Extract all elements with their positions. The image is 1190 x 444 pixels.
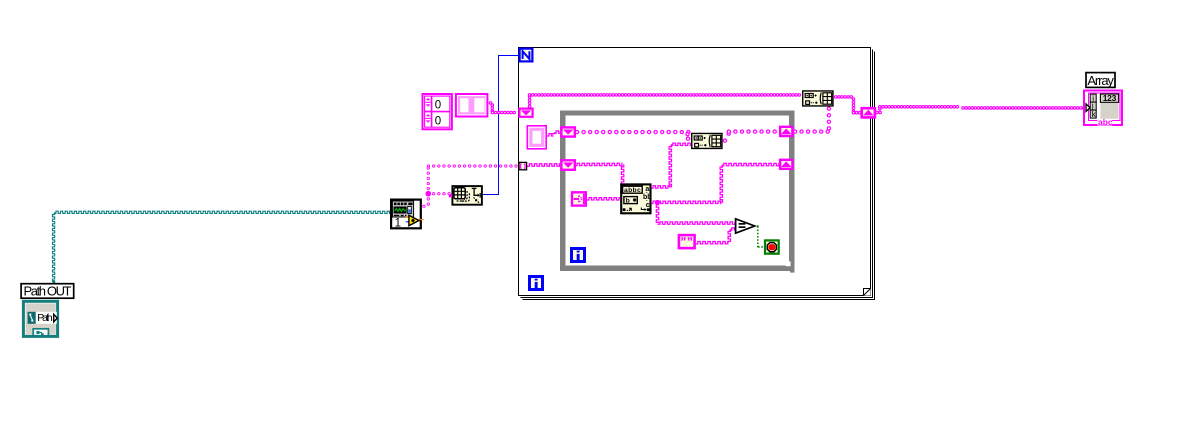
- for loop right shift register: [862, 108, 875, 117]
- while loop left shift register 1: [561, 127, 574, 136]
- svg-text:a: a: [645, 186, 649, 193]
- Array indicator label: [1086, 73, 1115, 88]
- svg-text:1: 1: [395, 218, 401, 230]
- wire: quotes constant to Equal? lower input: [695, 228, 736, 244]
- wire: empty array constant to while SR1: [547, 131, 562, 136]
- wire: while SR2 out down into Match Pattern: [575, 163, 624, 184]
- while loop right shift register 1: [780, 127, 792, 136]
- svg-text:c: c: [646, 202, 650, 209]
- svg-text:0: 0: [435, 115, 441, 127]
- quotes constant: [679, 235, 695, 248]
- wire: blue N count wire: [483, 56, 519, 195]
- Build Array node (inner): [692, 133, 722, 148]
- wire: inner Build Array output to while right SR1: [725, 132, 779, 141]
- wire: junction down to Equal? input: [656, 202, 736, 224]
- wire: boolean from Equal? to stop terminal: [755, 226, 766, 247]
- svg-text:abbc: abbc: [624, 187, 641, 194]
- while loop left shift register 2: [561, 160, 574, 170]
- 2D string array constant: index frame: [423, 94, 452, 129]
- while loop resize notch: [786, 261, 795, 272]
- Spreadsheet String To Array node: [449, 186, 482, 205]
- wire: 1D array row from while SR1 to inner Build Array: [577, 132, 691, 139]
- wire: 1D string array row into for-loop tunnel: [429, 164, 518, 167]
- svg-text:0: 0: [435, 100, 441, 112]
- wire: Match output bb to while right SR2: [651, 163, 780, 204]
- Array indicator body: [1084, 91, 1122, 128]
- Match Pattern node: [621, 184, 651, 213]
- for loop iteration terminal i: [530, 277, 543, 290]
- svg-text:abc: abc: [1098, 117, 1113, 127]
- for loop auto-index tunnel: [519, 162, 527, 169]
- Build Array node (top): [803, 91, 833, 106]
- for loop left shift register: [519, 109, 532, 117]
- while loop frame: [563, 113, 792, 268]
- empty string array constant: [527, 126, 546, 149]
- wire: Convert-node output riser and junction: [424, 168, 451, 206]
- svg-text:Path OUT: Path OUT: [24, 284, 72, 299]
- tab constant: [572, 192, 586, 205]
- wire: while right SR1 out to top Build Array lower input: [795, 109, 830, 132]
- svg-text:123: 123: [1103, 93, 1117, 103]
- wire: tab constant to Match Pattern input: [587, 198, 621, 200]
- svg-text:bb: bb: [643, 194, 652, 201]
- Equal? node: [736, 219, 755, 233]
- while loop iteration terminal i: [572, 249, 585, 262]
- svg-text:b: b: [626, 198, 630, 205]
- svg-text:Path: Path: [37, 312, 53, 324]
- while loop right shift register 2: [780, 160, 792, 169]
- for loop frame: [519, 48, 875, 300]
- wire: 2D array constant to for-loop left shift register: [491, 103, 518, 113]
- wire: Match output a up to inner Build Array: [651, 143, 692, 188]
- wire: top Build Array output to for-loop right shift register: [836, 97, 861, 113]
- for loop N terminal: [520, 49, 533, 62]
- Path OUT label: [21, 284, 74, 299]
- wire: 2D array top row to Build Array: [530, 95, 802, 108]
- wire: tunnel to while SR2 (scalar string): [527, 164, 561, 166]
- Path OUT path control: [23, 301, 57, 336]
- Convert from Dynamic Data express node: [391, 200, 423, 230]
- while loop stop condition terminal: [765, 240, 779, 253]
- wire: for-loop right shift register to Array indicator: [877, 107, 1085, 113]
- svg-text:Array: Array: [1087, 73, 1114, 88]
- 2D string array constant: element frame: [456, 94, 488, 117]
- for loop resize dog-ear: [863, 288, 871, 296]
- wire: teal path wire from Path OUT: [53, 211, 391, 283]
